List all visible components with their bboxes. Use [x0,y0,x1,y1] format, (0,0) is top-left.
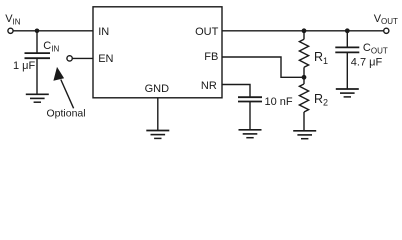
svg-text:FB: FB [204,51,218,63]
wire EN to EN pin [72,57,93,59]
wire R1 to FB junction [303,67,305,77]
svg-text:Optional: Optional [47,107,86,119]
svg-text:NR: NR [201,80,217,92]
svg-text:1 μF: 1 μF [13,60,36,72]
node VIN [5,13,21,33]
junction FB node [302,75,307,80]
wire CIN to ground [36,58,38,94]
junction COUT top [345,28,350,33]
wire COUT to ground [346,52,348,89]
ground CNR [239,130,262,138]
wire R2 to ground [303,112,305,131]
ground CIN [26,94,49,102]
capacitor COUT [335,47,359,52]
ground COUT [336,89,359,97]
wire FB net [222,57,304,77]
svg-text:EN: EN [98,53,113,65]
wire CNR to ground [249,102,251,130]
junction CIN top [35,29,40,34]
ground R2 [293,131,316,139]
svg-text:OUT: OUT [195,26,219,38]
svg-text:GND: GND [145,83,170,95]
wire VIN to IN pin [13,30,93,32]
wire COUT branch [346,31,348,48]
node VOUT [374,13,398,34]
svg-text:IN: IN [98,26,109,38]
wire OUT to R1 [303,31,305,40]
ground U1 GND [146,131,169,139]
capacitor CNR [238,97,262,101]
wire NR net [222,85,250,98]
junction R1 top [302,28,307,33]
wire GND pin [157,98,159,131]
svg-text:10 nF: 10 nF [265,96,293,108]
wire OUT net [222,30,384,32]
resistor R2 [299,84,308,112]
wire FB junction to R2 [303,77,305,84]
resistor R1 [299,39,308,67]
capacitor CIN [25,53,51,58]
wire CIN branch [36,31,38,53]
annotation arrow to EN [53,67,73,108]
node EN terminal [67,56,72,61]
regulator U1 [93,7,222,98]
svg-text:4.7 μF: 4.7 μF [351,56,383,68]
